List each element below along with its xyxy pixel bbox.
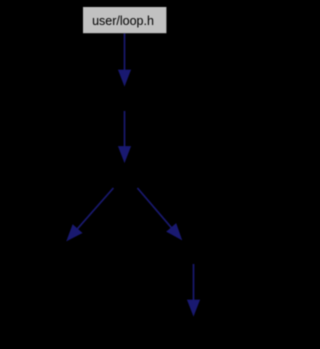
node N5 (hidden)	[144, 241, 244, 265]
node N3 (hidden)	[75, 163, 175, 188]
edge N3 -> N4	[67, 188, 113, 241]
edge N3 -> N5	[137, 188, 181, 240]
node N6 (hidden)	[144, 317, 244, 341]
edge user/loop.h -> N2	[119, 34, 131, 86]
node N2 (hidden)	[65, 87, 185, 111]
node N4 (hidden)	[18, 241, 118, 265]
svg-text:user/loop.h: user/loop.h	[92, 14, 154, 28]
edge N5 -> N6	[188, 264, 200, 316]
node user/loop.h	[83, 7, 166, 33]
edge N2 -> N3	[119, 111, 131, 162]
